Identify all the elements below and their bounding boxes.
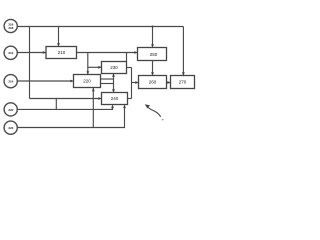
input circle 4: [4, 103, 17, 116]
arrowhead into box 220 top: [86, 71, 89, 74]
wire bus vertical from circle 1: [29, 27, 31, 99]
arrowhead into box 240 bottom from circle 4: [111, 105, 114, 108]
wire circle 2 to box 210: [18, 52, 46, 54]
box 260: [139, 76, 167, 89]
arrowhead into box 230 bottom: [112, 73, 115, 76]
wire box 220 to box 240 stub: [101, 83, 114, 85]
wire branch down to box 220 top: [87, 53, 89, 75]
arrowhead into box 270 top: [182, 72, 185, 75]
wire bus into box 240 left: [30, 98, 101, 100]
wire box 240 right stub: [128, 98, 132, 100]
arrowhead into box 210 top: [57, 43, 60, 46]
arrowhead into box 240 top: [112, 89, 115, 92]
wire into box 260 left: [132, 82, 138, 84]
wire bridge circle 4 line up to bus line: [55, 98, 57, 109]
wire drop from rail into box 210 top: [58, 27, 60, 46]
box 240: [102, 93, 128, 105]
svg-text:212: 212: [8, 51, 13, 55]
svg-text:224: 224: [8, 126, 13, 130]
arrowhead into box 240 left: [98, 97, 101, 100]
svg-text:214: 214: [8, 80, 13, 84]
wire branch circle 5 line up into box 220 bottom: [92, 88, 94, 128]
wire box 230 right stub: [127, 67, 132, 69]
wire box 250 to box 260: [152, 61, 154, 76]
svg-text:222: 222: [8, 108, 13, 112]
input circle 2: [4, 46, 17, 59]
arrowhead into box 210: [43, 51, 46, 54]
arrowhead into box 220: [70, 80, 73, 83]
wire circle 4 to box 240 bottom: [18, 105, 113, 109]
box 230: [102, 62, 127, 74]
arrowhead into box 250 left: [134, 51, 137, 54]
arrowhead into box 220 bottom from circle 5 branch: [92, 88, 95, 91]
wire box 260 to box 270: [167, 82, 171, 84]
wire circle 5 to box 240 bottom: [18, 105, 125, 127]
wire vertical between box 230 and box 240: [113, 74, 115, 92]
box 210: [46, 47, 77, 59]
svg-text:210: 210: [58, 50, 66, 55]
squiggle leader arrow 200: [145, 104, 164, 120]
arrowhead into box 260 left: [135, 81, 138, 84]
wire box 210 to box 250: [77, 52, 138, 54]
svg-text:270: 270: [179, 80, 187, 85]
wire drop from 210 line into box 230 top corner: [126, 53, 128, 62]
wire box 220 to box 230 stub: [101, 78, 114, 80]
arrowhead into box 270 left: [167, 81, 170, 84]
junction dot on top rail: [152, 26, 154, 28]
wire circle 3 to box 220: [18, 80, 73, 82]
box 220: [74, 75, 101, 88]
arrowhead into box 240 bottom from circle 5: [123, 105, 126, 108]
svg-text:250: 250: [150, 52, 158, 57]
wire top rail from circle 1: [18, 26, 184, 28]
box 250: [138, 48, 167, 61]
svg-text:218: 218: [8, 26, 13, 30]
svg-text:220: 220: [83, 79, 91, 84]
input circle 3: [4, 75, 17, 88]
wire drop into box 250: [152, 27, 154, 47]
wire drop right into box 270: [182, 27, 184, 76]
input circle 5: [4, 121, 17, 134]
wire vertical right of boxes 230 240: [131, 68, 133, 99]
svg-text:240: 240: [111, 96, 119, 101]
arrowhead into box 260 top: [151, 72, 154, 75]
svg-text:260: 260: [149, 80, 157, 85]
input circle 1: [4, 19, 17, 32]
arrowhead into box 230: [98, 66, 101, 69]
svg-text:230: 230: [110, 65, 118, 70]
arrowhead into box 250 top: [151, 44, 154, 47]
wire branch into box 230 left: [88, 66, 101, 68]
box 270: [171, 76, 195, 89]
